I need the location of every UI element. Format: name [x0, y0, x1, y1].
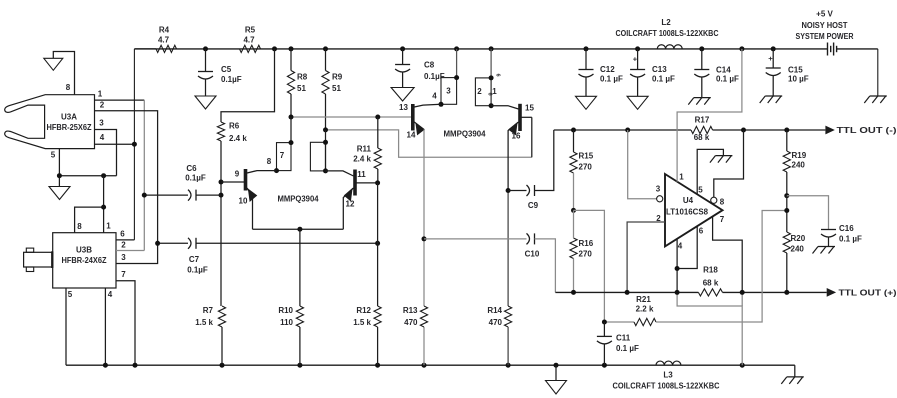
- capacitor C12: [585, 49, 587, 70]
- svg-text:2.4 k: 2.4 k: [229, 134, 247, 143]
- svg-text:3: 3: [99, 119, 104, 128]
- svg-text:5: 5: [698, 186, 703, 195]
- ground chassis U4 pin5: [715, 155, 732, 157]
- resistor R7: [218, 306, 225, 327]
- svg-text:COILCRAFT 1008LS-122XKBC: COILCRAFT 1008LS-122XKBC: [613, 382, 720, 391]
- svg-text:240: 240: [792, 161, 806, 170]
- wire U3A pin 2: [94, 111, 157, 244]
- wire U3B pin 5: [65, 288, 67, 365]
- svg-text:C6: C6: [186, 164, 197, 173]
- resistor R11: [377, 117, 379, 148]
- svg-text:10 µF: 10 µF: [788, 75, 809, 84]
- resistor R8: [290, 49, 292, 71]
- svg-text:2: 2: [121, 241, 126, 250]
- svg-text:R11: R11: [357, 145, 372, 154]
- wire bridge of Q11: [310, 142, 325, 171]
- wire battery to right ground: [877, 49, 879, 96]
- svg-text:U3A: U3A: [61, 113, 77, 122]
- wire U3B pin 2: [116, 250, 144, 252]
- svg-text:1: 1: [679, 173, 684, 182]
- wire U3B pin 6: [116, 239, 134, 241]
- svg-text:8: 8: [720, 198, 725, 207]
- svg-text:7: 7: [121, 270, 126, 279]
- svg-text:0.1 µF: 0.1 µF: [839, 235, 862, 244]
- svg-text:C10: C10: [525, 250, 540, 259]
- svg-text:HFBR-25X6Z: HFBR-25X6Z: [47, 123, 92, 132]
- svg-text:0.1µF: 0.1µF: [221, 75, 242, 84]
- svg-text:TTL OUT (+): TTL OUT (+): [839, 289, 897, 298]
- svg-text:7: 7: [280, 151, 285, 160]
- svg-text:6: 6: [120, 230, 125, 239]
- wire R9 to Q15 collector jog: [326, 130, 532, 157]
- svg-text:1.5 k: 1.5 k: [195, 318, 213, 327]
- svg-text:3: 3: [446, 87, 451, 96]
- capacitor C16: [821, 229, 836, 231]
- wire C7 to R12 column: [196, 242, 378, 244]
- ground chassis right: [870, 95, 887, 97]
- svg-text:C11: C11: [616, 334, 631, 343]
- wire R6 top jog to rail: [221, 49, 275, 122]
- resistor R15: [573, 130, 575, 152]
- svg-text:2.2 k: 2.2 k: [636, 305, 654, 314]
- svg-text:0.1 µF: 0.1 µF: [600, 75, 623, 84]
- svg-text:470: 470: [489, 318, 503, 327]
- wire U3B pin 7: [116, 281, 135, 366]
- wire TTL OUT (+) line: [555, 291, 698, 293]
- svg-text:R15: R15: [579, 152, 594, 161]
- wire Q15 emitter to R14: [507, 191, 509, 307]
- resistor R6: [217, 122, 224, 141]
- svg-text:R21: R21: [636, 295, 651, 304]
- svg-text:51: 51: [297, 84, 306, 93]
- transistor Q15 (MMPQ3904 pins 15 16): [518, 104, 522, 131]
- wire TTL OUT (-) line: [554, 129, 691, 131]
- capacitor C11: [603, 322, 605, 336]
- capacitor C15: [772, 49, 774, 68]
- svg-text:MMPQ3904: MMPQ3904: [278, 195, 320, 204]
- capacitor C5: [205, 49, 207, 72]
- ground bottom rail: [555, 365, 557, 380]
- transistor Q13 (MMPQ3904 pins 13 14): [411, 104, 415, 131]
- wire U4 pin 5 latch to ground: [697, 149, 723, 194]
- wire R12 column: [377, 183, 379, 306]
- wire R15 bottom jog to R21: [574, 210, 605, 322]
- wire U3B pin 4: [104, 288, 106, 365]
- TTL OUT (-) arrow: [825, 126, 834, 135]
- svg-text:11: 11: [357, 170, 366, 179]
- svg-text:10: 10: [239, 197, 248, 206]
- ground C12: [576, 96, 597, 109]
- svg-text:240: 240: [791, 245, 805, 254]
- wire C16 feed: [787, 196, 829, 230]
- transistor Q11 (MMPQ3904 pins 11 12): [353, 170, 357, 196]
- ground chassis C14: [694, 97, 711, 99]
- wire U3A pin 5 ground net: [58, 149, 60, 187]
- svg-text:8: 8: [267, 157, 272, 166]
- wire U3A pin 1: [94, 99, 144, 101]
- ground chassis L3 right: [794, 365, 796, 377]
- svg-text:C15: C15: [788, 66, 803, 75]
- resistor R17: [691, 126, 713, 133]
- resistor R9: [325, 49, 327, 71]
- capacitor C7: [158, 242, 188, 244]
- svg-text:MMPQ3904: MMPQ3904: [444, 130, 487, 139]
- svg-text:4: 4: [108, 290, 113, 299]
- svg-text:L3: L3: [663, 371, 673, 380]
- svg-text:1: 1: [106, 222, 111, 231]
- svg-text:8: 8: [77, 222, 82, 231]
- svg-text:R14: R14: [487, 306, 502, 315]
- svg-text:TTL OUT (-): TTL OUT (-): [837, 126, 897, 135]
- svg-text:2: 2: [477, 87, 482, 96]
- wire R8 to Q13 base: [291, 116, 411, 118]
- svg-text:14: 14: [407, 131, 416, 140]
- svg-text:5: 5: [51, 151, 56, 160]
- svg-text:4.7: 4.7: [158, 36, 170, 45]
- svg-text:6: 6: [495, 73, 501, 76]
- svg-text:68 k: 68 k: [694, 133, 710, 142]
- wire U4 pin 8 output: [711, 197, 717, 203]
- resistor R10: [299, 229, 301, 306]
- svg-text:C9: C9: [528, 201, 539, 210]
- wire U3A pin 3: [94, 130, 116, 176]
- svg-text:3: 3: [656, 185, 661, 194]
- ground C8: [391, 88, 414, 102]
- svg-text:2: 2: [656, 214, 661, 223]
- svg-text:0.1µF: 0.1µF: [424, 72, 445, 81]
- svg-text:R19: R19: [792, 151, 807, 160]
- resistor R19: [786, 130, 788, 151]
- svg-text:C14: C14: [716, 66, 731, 75]
- svg-text:R17: R17: [695, 116, 710, 125]
- resistor R20: [786, 196, 788, 232]
- svg-text:9: 9: [235, 170, 240, 179]
- svg-text:C13: C13: [652, 65, 667, 74]
- svg-text:NOISY HOST: NOISY HOST: [802, 21, 848, 30]
- svg-text:470: 470: [404, 318, 418, 327]
- svg-text:8: 8: [66, 83, 71, 92]
- svg-text:R5: R5: [245, 26, 256, 35]
- capacitor C14: [701, 49, 703, 70]
- svg-text:C8: C8: [424, 61, 435, 70]
- svg-text:2: 2: [100, 101, 105, 110]
- wire U3A pin 8 to ground: [53, 52, 74, 95]
- comparator U4 LT1016CS8: [665, 174, 723, 246]
- svg-text:4: 4: [432, 92, 437, 101]
- wire U4 ground jog to bottom rail: [677, 292, 742, 365]
- ground U3A pin5: [49, 187, 70, 200]
- transistor Q9 (MMPQ3904 pins 9 10): [244, 169, 248, 191]
- svg-text:0.1 µF: 0.1 µF: [716, 75, 739, 84]
- svg-text:1: 1: [98, 90, 103, 99]
- svg-text:R12: R12: [356, 306, 371, 315]
- ground C13: [627, 96, 648, 109]
- capacitor C10: [424, 238, 527, 240]
- svg-text:68 k: 68 k: [703, 279, 719, 288]
- svg-text:HFBR-24X6Z: HFBR-24X6Z: [62, 256, 107, 265]
- wire emitter bus first pair: [253, 228, 344, 230]
- wire U3B pin 3: [116, 243, 158, 263]
- fiber optic receiver U3A HFBR-25X6Z: [5, 95, 95, 149]
- svg-text:4: 4: [100, 133, 105, 142]
- svg-text:+5 V: +5 V: [816, 10, 833, 19]
- ground U3A pin8: [44, 58, 63, 70]
- capacitor C13: [637, 49, 639, 70]
- svg-text:C7: C7: [189, 255, 200, 264]
- svg-text:13: 13: [399, 103, 408, 112]
- resistor R4: [134, 48, 156, 50]
- resistor R5: [240, 45, 261, 52]
- wire bridge pins 2 1 of Q15: [475, 78, 491, 106]
- resistor R14: [505, 306, 512, 327]
- wire rail left end down to U3 pins: [133, 49, 135, 240]
- svg-text:51: 51: [332, 84, 341, 93]
- svg-text:5: 5: [68, 290, 73, 299]
- node rail junctions: [203, 46, 208, 51]
- svg-text:110: 110: [280, 318, 293, 327]
- connector stub U3B: [24, 252, 53, 267]
- svg-text:6: 6: [487, 92, 493, 95]
- wire U3B pin8 pin1 to ground net: [75, 207, 104, 233]
- svg-text:R7: R7: [203, 306, 214, 315]
- svg-text:SYSTEM POWER: SYSTEM POWER: [796, 32, 854, 41]
- wire Q13 emitter column: [423, 130, 425, 307]
- svg-text:R4: R4: [159, 26, 170, 35]
- svg-text:R16: R16: [579, 239, 594, 248]
- svg-text:16: 16: [512, 132, 521, 141]
- svg-text:R13: R13: [403, 306, 418, 315]
- wire +5V top rail: [134, 48, 827, 50]
- capacitor C6: [144, 194, 188, 196]
- svg-text:C12: C12: [600, 65, 615, 74]
- resistor R12: [374, 306, 381, 327]
- svg-text:R18: R18: [703, 266, 718, 275]
- svg-text:+: +: [633, 55, 638, 64]
- svg-text:+: +: [768, 54, 773, 63]
- ground chassis C15: [765, 95, 782, 97]
- svg-text:0.1µF: 0.1µF: [185, 174, 206, 183]
- wire U4 pin 2 input: [627, 222, 665, 292]
- svg-text:0.1µF: 0.1µF: [187, 266, 208, 275]
- resistor R13: [420, 306, 427, 327]
- resistor R18: [698, 289, 722, 296]
- svg-text:0.1 µF: 0.1 µF: [616, 344, 639, 353]
- svg-text:1.5 k: 1.5 k: [353, 318, 371, 327]
- svg-text:LT1016CS8: LT1016CS8: [666, 208, 709, 217]
- svg-text:6: 6: [699, 227, 704, 236]
- capacitor C9: [508, 190, 526, 192]
- wire bridge pins 8 7 of Q9: [277, 143, 292, 171]
- fiber optic receiver U3B HFBR-24X6Z: [53, 233, 116, 288]
- wire U4 pin 3 input: [628, 130, 657, 199]
- svg-text:COILCRAFT 1008LS-122XKBC: COILCRAFT 1008LS-122XKBC: [616, 29, 719, 38]
- wire U3A pin 4: [94, 143, 134, 145]
- inductor L2: [657, 45, 682, 49]
- svg-text:4: 4: [678, 242, 683, 251]
- svg-text:U4: U4: [683, 196, 694, 205]
- svg-text:4.7: 4.7: [243, 36, 255, 45]
- svg-text:R8: R8: [297, 73, 308, 82]
- wire U4 pin 7 output: [713, 216, 743, 292]
- resistor R16: [570, 238, 577, 259]
- svg-text:L2: L2: [661, 18, 671, 27]
- TTL OUT (+) arrow: [827, 288, 836, 297]
- wire R6 bottom column to R7: [220, 141, 222, 306]
- wire U4 pins 4 6 ground: [676, 239, 678, 293]
- svg-text:2.4 k: 2.4 k: [353, 155, 371, 164]
- svg-text:270: 270: [579, 250, 593, 259]
- inductor L3: [656, 361, 681, 365]
- svg-text:15: 15: [525, 104, 534, 113]
- svg-text:270: 270: [579, 163, 593, 172]
- svg-text:7: 7: [720, 215, 725, 224]
- svg-text:C5: C5: [221, 65, 232, 74]
- wire bridge pins 4 3 of Q13: [441, 78, 457, 105]
- ground C5: [195, 96, 216, 109]
- svg-text:R10: R10: [278, 306, 293, 315]
- svg-text:3: 3: [121, 253, 126, 262]
- svg-text:0.1 µF: 0.1 µF: [652, 75, 675, 84]
- resistor R21: [604, 321, 634, 323]
- wire bottom rail: [66, 364, 795, 366]
- svg-text:U3B: U3B: [76, 246, 92, 255]
- capacitor C8: [402, 49, 404, 65]
- wire U4 V+ pin 1 from rail: [677, 49, 742, 182]
- svg-text:12: 12: [346, 200, 355, 209]
- ground chassis C16: [818, 246, 835, 248]
- svg-text:C16: C16: [839, 224, 854, 233]
- svg-text:R20: R20: [791, 234, 806, 243]
- svg-text:R6: R6: [229, 122, 240, 131]
- svg-text:R9: R9: [332, 73, 343, 82]
